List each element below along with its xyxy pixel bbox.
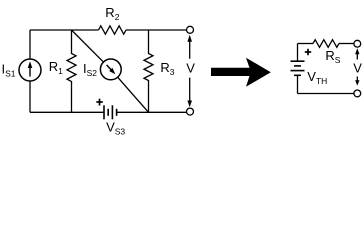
- terminal top left circuit: [187, 26, 194, 33]
- wire bottom rail (thevenin): [298, 93, 355, 95]
- resistor RS: [313, 40, 339, 48]
- wire left rail upper: [29, 30, 31, 59]
- wire battery bottom lead: [297, 75, 299, 93]
- wire top rail (thevenin) right: [339, 43, 354, 45]
- big transform arrow: [211, 58, 271, 87]
- plus sign VTH: [305, 49, 311, 55]
- V arrow down (right circuit): [355, 77, 359, 86]
- resistor R2: [99, 26, 127, 34]
- V arrow up (left circuit): [187, 35, 192, 59]
- resistor R1: [67, 30, 76, 112]
- svg-text:V: V: [186, 61, 195, 76]
- terminal bottom right circuit: [354, 90, 361, 97]
- battery VTH: [291, 61, 305, 75]
- terminal bottom left circuit: [187, 108, 194, 115]
- svg-text:V: V: [353, 61, 362, 76]
- V arrow up (right circuit): [355, 48, 359, 59]
- current source IS1: [19, 59, 41, 81]
- wire bottom rail left: [30, 111, 104, 113]
- resistor R3: [144, 30, 153, 112]
- wire battery top lead: [297, 44, 299, 62]
- wire diagonal lower segment: [118, 77, 149, 112]
- battery VS3: [104, 105, 117, 119]
- wire bottom rail right: [117, 111, 187, 113]
- wire diagonal upper segment: [72, 30, 104, 62]
- current source IS2: [96, 55, 125, 84]
- wire top rail right: [126, 29, 187, 31]
- plus sign VS3: [96, 99, 103, 106]
- terminal top right circuit: [354, 40, 361, 47]
- wire left rail lower: [29, 81, 31, 113]
- wire top rail (thevenin) left: [298, 43, 314, 45]
- V arrow down (left circuit): [187, 78, 192, 108]
- wire top rail left: [30, 29, 99, 31]
